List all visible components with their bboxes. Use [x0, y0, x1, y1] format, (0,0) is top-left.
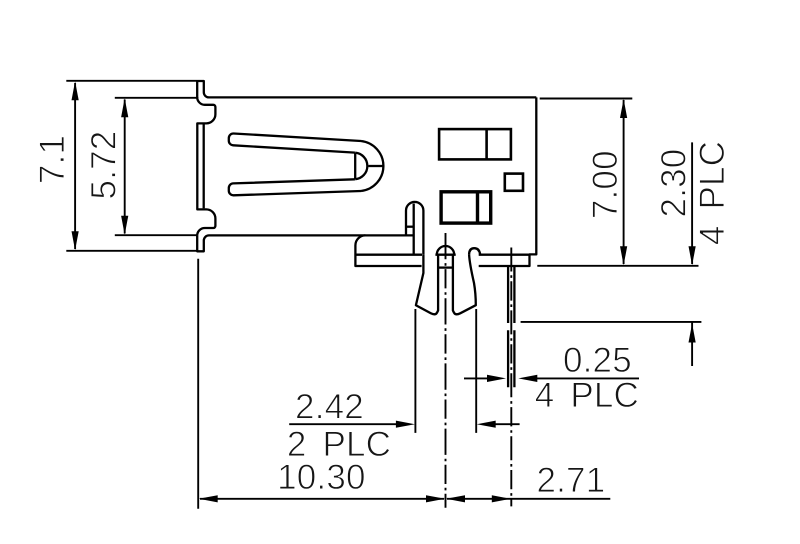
svg-text:5.72: 5.72 [85, 131, 124, 200]
right snap prong [453, 255, 476, 315]
plastic base foot [355, 235, 421, 266]
svg-text:7.1: 7.1 [33, 135, 72, 184]
shell right edge and base step [479, 97, 537, 266]
dim line 0.25 left tail [464, 377, 490, 379]
svg-text:4 PLC: 4 PLC [535, 376, 639, 415]
lower window rect [441, 192, 491, 223]
arrow 7.1 bottom [72, 231, 79, 250]
dim line 2.42 left tail [289, 423, 398, 425]
svg-text:2.71: 2.71 [536, 461, 605, 500]
shell bottom tab [197, 235, 414, 251]
arrow 5.72 top [121, 98, 128, 117]
ext line 7.1 bottom [66, 250, 197, 252]
contact spring upper arm [229, 133, 361, 152]
svg-text:7.00: 7.00 [586, 150, 625, 219]
lower window divider [476, 192, 479, 223]
svg-text:2.30: 2.30 [654, 149, 693, 218]
contact spring outer bend [361, 141, 383, 191]
dim line 7.1 [74, 83, 76, 249]
contact spring lower arm [229, 179, 361, 195]
arrow 5.72 bottom [121, 216, 128, 235]
ext line 5.72 top [115, 97, 197, 99]
arrowheads [72, 81, 696, 502]
ext line 7.1 top [66, 80, 197, 82]
svg-text:10.30: 10.30 [277, 458, 366, 497]
right pin lower segment [508, 330, 514, 387]
ext line 2.42 left [414, 309, 416, 433]
ext line bottom left [197, 259, 199, 509]
dim line 2.30 upper tail [691, 142, 693, 264]
arrow 2.42 right [477, 421, 496, 428]
plastic base foot step line [355, 254, 422, 256]
left snap prong [416, 255, 438, 315]
dim line 7.00 [623, 100, 625, 264]
arrow 10.30 left [199, 495, 218, 502]
inner rectangles [439, 129, 523, 223]
contact spring inner bend [355, 153, 367, 180]
svg-text:2.42: 2.42 [295, 387, 364, 426]
arrow 10.30 right [426, 495, 445, 502]
dim line 10.30 [200, 498, 444, 500]
base inner edge [413, 204, 415, 255]
ext line 2.30 bottom [521, 321, 702, 323]
shell top tab [197, 81, 536, 98]
left pin tick [438, 266, 453, 268]
dimension graphics [66, 81, 701, 509]
ext line 2.42 right [475, 309, 477, 433]
shell rear lock tab [406, 202, 423, 255]
dim line 2.42 right tail [494, 423, 520, 425]
upper window rect [439, 129, 511, 159]
dim line 2.71 [447, 498, 610, 500]
ext line 7.00 bottom [537, 265, 698, 267]
contact spring bend chord [354, 153, 356, 180]
dim line 0.25 right tail [533, 377, 639, 379]
dim line 5.72 [124, 100, 126, 234]
contact spring bend tick [369, 165, 384, 167]
left pin dome [435, 246, 455, 255]
arrow 7.00 bottom [620, 246, 627, 265]
lock tab tick [406, 226, 414, 228]
center line left pin [445, 233, 447, 508]
arrow 2.30 up [689, 324, 696, 343]
arrow 2.71 left [446, 495, 465, 502]
right pin upper segment [508, 266, 514, 323]
upper window divider [485, 129, 488, 159]
right base slab top [479, 254, 530, 256]
ext line 5.72 bottom [115, 234, 197, 236]
svg-text:0.25: 0.25 [563, 341, 632, 380]
arrow 0.25 right [487, 375, 506, 382]
arrow 2.71 right [492, 495, 511, 502]
arrow 0.25 left [518, 375, 537, 382]
arrow 2.30 down [689, 246, 696, 265]
shell front flange top fold [197, 97, 215, 236]
svg-text:4 PLC: 4 PLC [693, 141, 732, 245]
ext line 7.00 top [540, 98, 633, 100]
small square window [505, 174, 523, 191]
center line right pin [510, 248, 512, 507]
shell front flange inner line [203, 124, 205, 208]
dimension texts [33, 131, 732, 500]
arrow 7.1 top [72, 81, 79, 100]
dim line 2.30 lower tail [691, 322, 693, 366]
arrow 7.00 top [620, 99, 627, 118]
center lines [446, 233, 512, 508]
arrow 2.42 left [396, 421, 415, 428]
right pin dome [469, 248, 480, 255]
